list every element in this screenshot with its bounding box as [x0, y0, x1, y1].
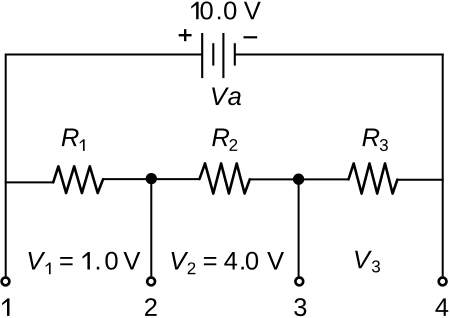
- label battery voltage 10.0 V: [191, 1, 260, 19]
- label Va: [212, 87, 241, 105]
- resistor R1: [53, 166, 103, 193]
- wire middle rail segment 3: [250, 178, 349, 180]
- wire node 3 to terminal 3: [298, 179, 300, 276]
- wire node 2 to terminal 2: [150, 179, 152, 277]
- label R3: [362, 129, 387, 152]
- wire top rail right: [235, 54, 444, 56]
- label terminal 4: [435, 298, 448, 316]
- resistor R2: [200, 163, 250, 193]
- wire left rail: [5, 54, 7, 277]
- label V3: [355, 251, 380, 273]
- resistor R3: [349, 163, 398, 193]
- label terminal 2: [145, 298, 157, 316]
- terminal 3: [295, 278, 303, 286]
- label terminal 3: [294, 298, 306, 316]
- label V1 = 1.0 V: [29, 252, 141, 275]
- wire right rail: [442, 54, 444, 277]
- wire middle rail left stub: [5, 181, 54, 183]
- terminal 4: [439, 278, 447, 286]
- battery plus sign: [179, 29, 192, 41]
- label R1: [62, 129, 85, 151]
- terminal 2: [147, 278, 155, 286]
- wire middle rail segment 2: [103, 178, 200, 180]
- wire middle rail right stub: [397, 179, 443, 181]
- label R2: [212, 129, 237, 151]
- node junction dot 2: [146, 173, 157, 184]
- battery Va: [202, 33, 235, 78]
- node junction dot 3: [293, 174, 304, 185]
- label V2 = 4.0 V: [172, 252, 284, 275]
- label terminal 1: [2, 298, 9, 316]
- terminal 1: [2, 278, 10, 286]
- battery minus sign: [244, 36, 258, 38]
- wire top rail left: [6, 54, 203, 56]
